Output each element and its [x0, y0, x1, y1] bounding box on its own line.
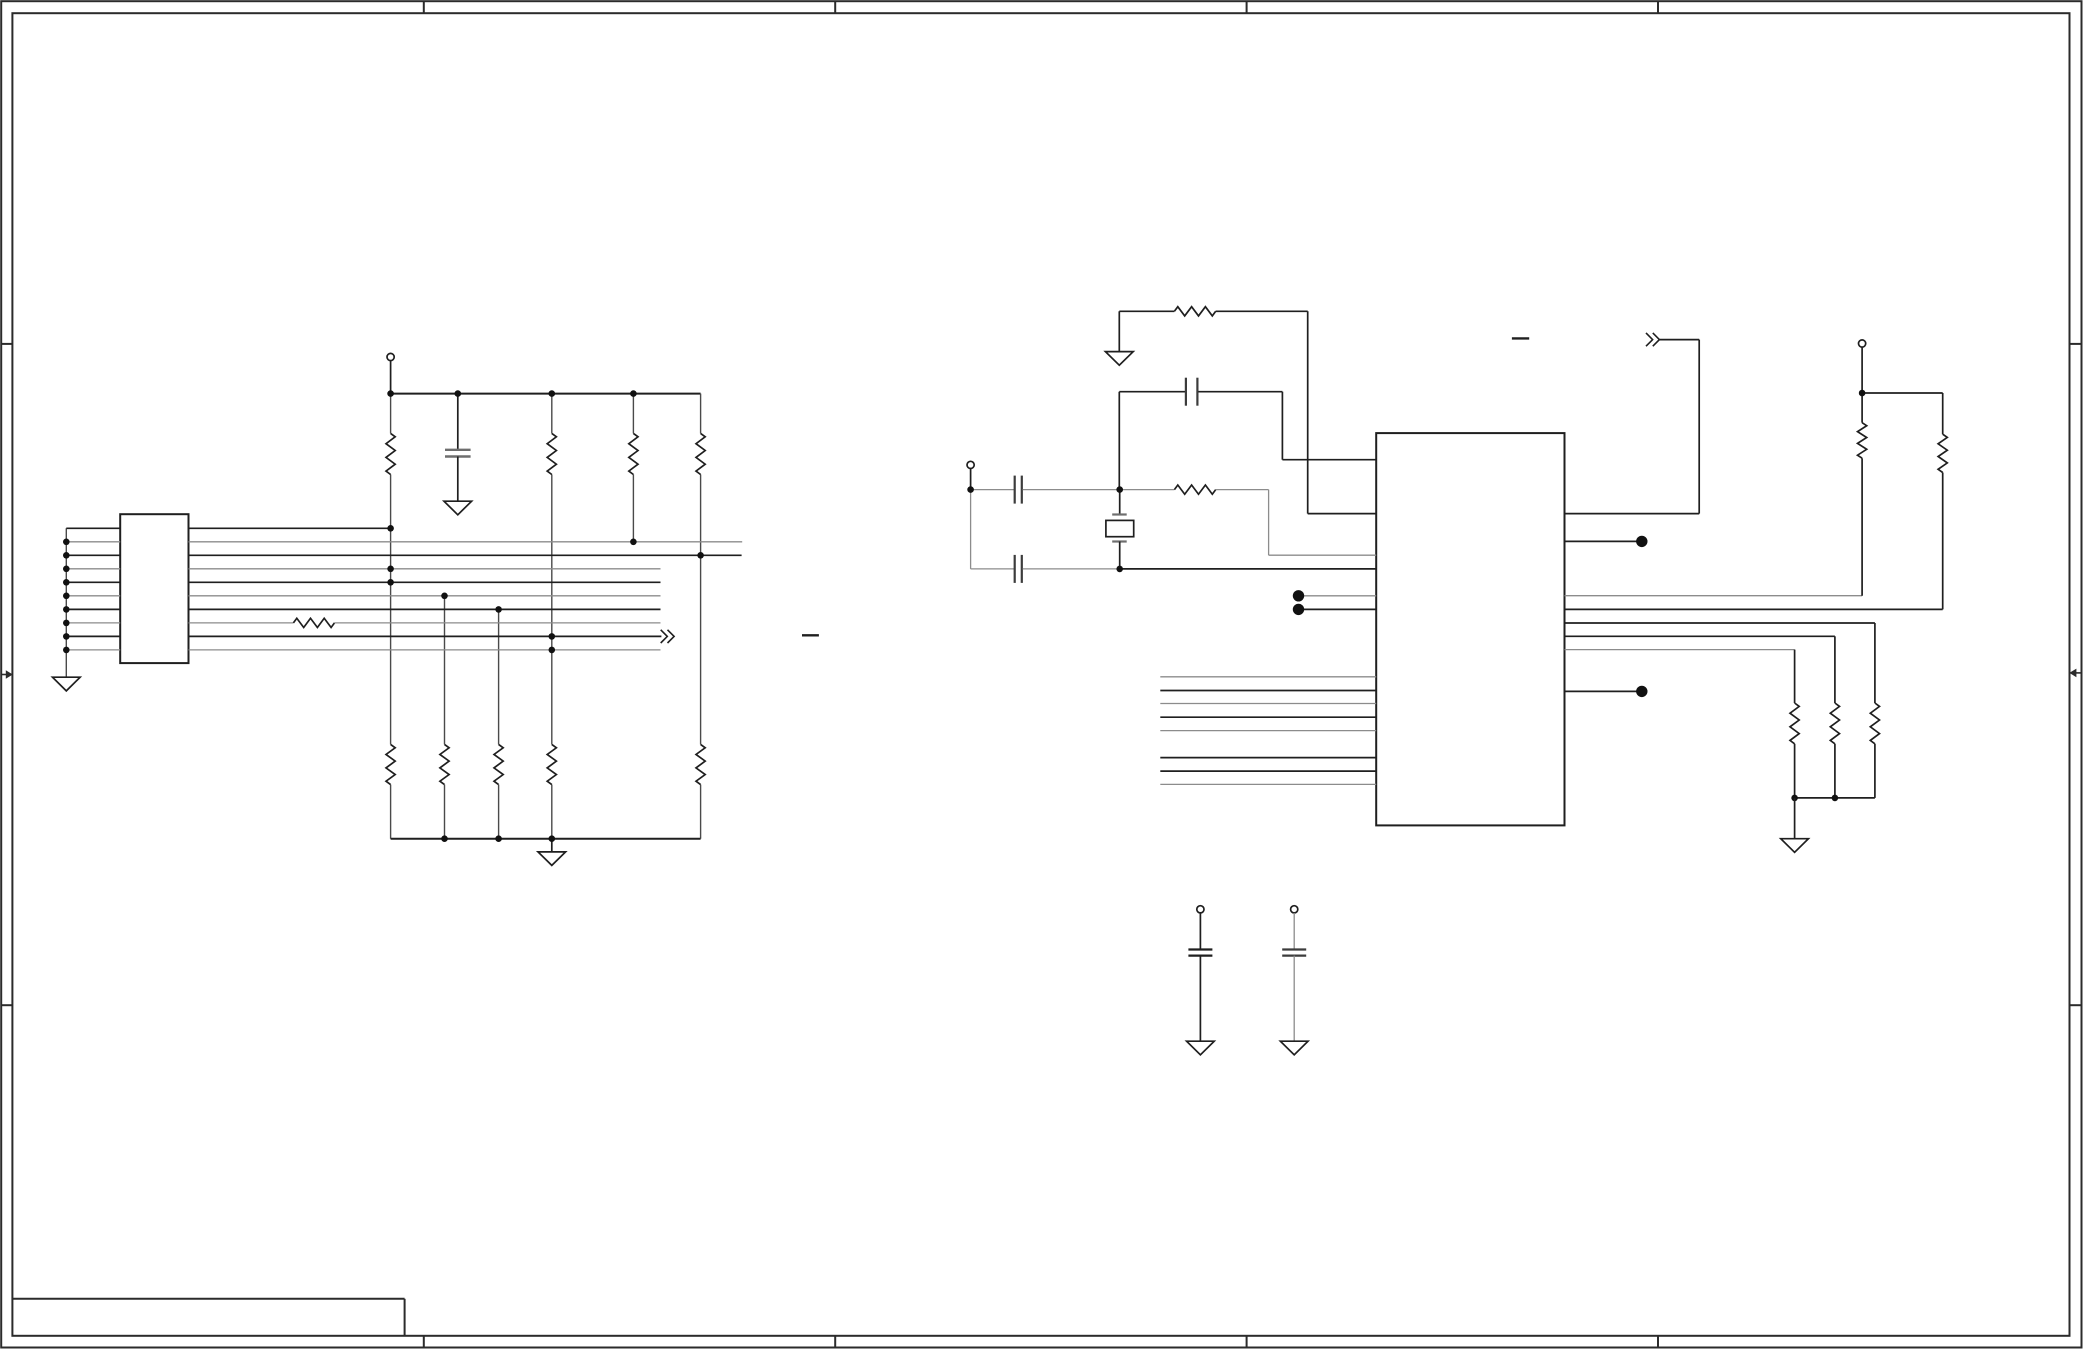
resistor R11 — [1174, 307, 1215, 316]
node: w2-V3 junction — [630, 539, 637, 546]
wire: vertical net V1 x=390.6 — [390, 394, 392, 839]
ground G4 — [1105, 352, 1133, 366]
wire: w8 left part — [189, 622, 294, 624]
node: left bus junctions — [63, 539, 70, 654]
supply terminal T5 — [1291, 906, 1298, 913]
capacitor C1 — [445, 394, 471, 502]
wire: vertical net V2 x=551.8 — [551, 394, 553, 839]
ground G2 — [53, 677, 81, 691]
wire: top rail — [391, 393, 701, 395]
resistor R17 — [1870, 703, 1879, 744]
wire: J1 pin stubs left — [66, 528, 120, 650]
resistor R9 — [696, 744, 705, 784]
wire: w2 — [189, 541, 743, 543]
wire: R12 to U1 — [1216, 490, 1377, 556]
supply terminal T2 — [967, 461, 974, 489]
resistor R4 — [696, 433, 705, 474]
crystal Y1 — [1106, 490, 1134, 569]
capacitor C3 — [971, 476, 1175, 504]
node: NC dot q8 — [1636, 686, 1647, 697]
wire: R13 to rail — [1861, 393, 1863, 423]
node: w6-V5 junction — [441, 593, 448, 600]
wire: U1 NC stub q2 — [1565, 540, 1639, 542]
node: bottom rail junctions — [441, 835, 555, 842]
zone arrow left border — [1, 670, 13, 679]
wire: q3 to pull-up R13 — [1565, 595, 1863, 597]
resistor R3 — [629, 433, 638, 474]
resistor R1 — [386, 433, 395, 474]
capacitor C4 — [971, 555, 1120, 583]
wire: w10 — [189, 649, 661, 651]
node: NC dot p6 — [1293, 604, 1304, 615]
IC U1 — [1376, 433, 1564, 825]
wire: q5 to pull-down R17 — [1565, 623, 1875, 798]
capacitor C6 — [1282, 950, 1306, 1042]
node: crystal top junctions — [967, 486, 1123, 493]
wire: bus lines into U1 — [1160, 677, 1376, 785]
node: crystal bottom junction — [1116, 566, 1123, 573]
ground G3 — [538, 839, 566, 866]
ground G6 — [1187, 1041, 1215, 1055]
wire: vertical net V5 x=444.5 — [444, 596, 446, 745]
node: left rail junctions — [387, 390, 636, 397]
off-page arrow A1 — [661, 630, 674, 643]
wire: xtal bottom to U1 — [1120, 568, 1377, 570]
resistor R8 — [547, 744, 556, 784]
node: NC dot p5 — [1293, 590, 1304, 601]
wire: q7 to pull-down R15 — [1565, 649, 1795, 651]
connector J1 — [120, 514, 188, 663]
net label dash D2 — [802, 634, 819, 636]
wire: q1 loop to off-page arrow — [1565, 340, 1700, 514]
wire: pull-up rail — [1862, 392, 1943, 394]
wire: left leg of xtal cap net — [970, 490, 972, 569]
wire: U1 NC stub q8 — [1565, 690, 1639, 692]
wire: w4 — [189, 568, 661, 570]
resistor R16 — [1830, 703, 1839, 744]
wire: w8 right part — [335, 622, 661, 624]
wire: left bus vertical — [65, 528, 67, 677]
wire: w5 — [189, 581, 661, 583]
wire: bottom ground rail — [391, 838, 701, 840]
resistor R5 — [386, 744, 395, 784]
node: rail junction — [1859, 390, 1866, 397]
supply terminal T1 — [387, 353, 394, 393]
wire: q4 to pull-up R14 — [1565, 393, 1943, 609]
resistor R13 — [1858, 423, 1867, 459]
resistor R15 — [1790, 703, 1799, 744]
resistor R12 — [1174, 485, 1215, 494]
wire: vertical net V4 x=700.6 — [700, 394, 702, 839]
wire: w9 — [189, 635, 662, 637]
node: NC dot q2 — [1636, 536, 1647, 547]
wire: w6 — [189, 595, 661, 597]
node: pull-down rail junctions — [1791, 795, 1838, 802]
resistor R10 — [293, 618, 334, 627]
wire: w3 — [189, 554, 742, 556]
wire: U1 NC stub p6 — [1302, 608, 1376, 610]
node: w3-V4 junction — [697, 552, 704, 559]
resistor R2 — [547, 433, 556, 474]
wire: w1 — [189, 527, 391, 529]
resistor R6 — [440, 744, 449, 784]
ground G7 — [1280, 1041, 1308, 1055]
ground G5 — [1781, 798, 1809, 852]
wire: q6 to pull-down R16 — [1565, 636, 1835, 798]
node: V2 wire junctions — [549, 633, 556, 653]
wire: vertical net V6 x=498.6 — [498, 609, 500, 744]
supply terminal T3 — [1859, 340, 1866, 393]
title block — [12, 1299, 404, 1336]
resistor R14 — [1938, 434, 1947, 472]
wire: w7 — [189, 608, 661, 610]
wire: pull-down rail — [1795, 797, 1875, 799]
wire: U1 NC stub p5 — [1302, 595, 1376, 597]
capacitor C2 — [1119, 378, 1376, 490]
node: V1 wire junctions — [387, 525, 394, 586]
wire: vertical net V3 x=633.4 — [632, 394, 634, 542]
node: w7-V6 junction — [495, 606, 502, 613]
off-page arrow A2 — [1646, 333, 1659, 346]
supply terminal T4 — [1197, 906, 1204, 950]
zone arrow right border — [2069, 669, 2081, 678]
resistor R7 — [494, 744, 503, 784]
capacitor C5 — [1188, 950, 1212, 1042]
net label dash D1 — [1512, 337, 1529, 339]
ground G1 — [444, 501, 472, 515]
wire: feedback resistor net — [1119, 311, 1376, 513]
